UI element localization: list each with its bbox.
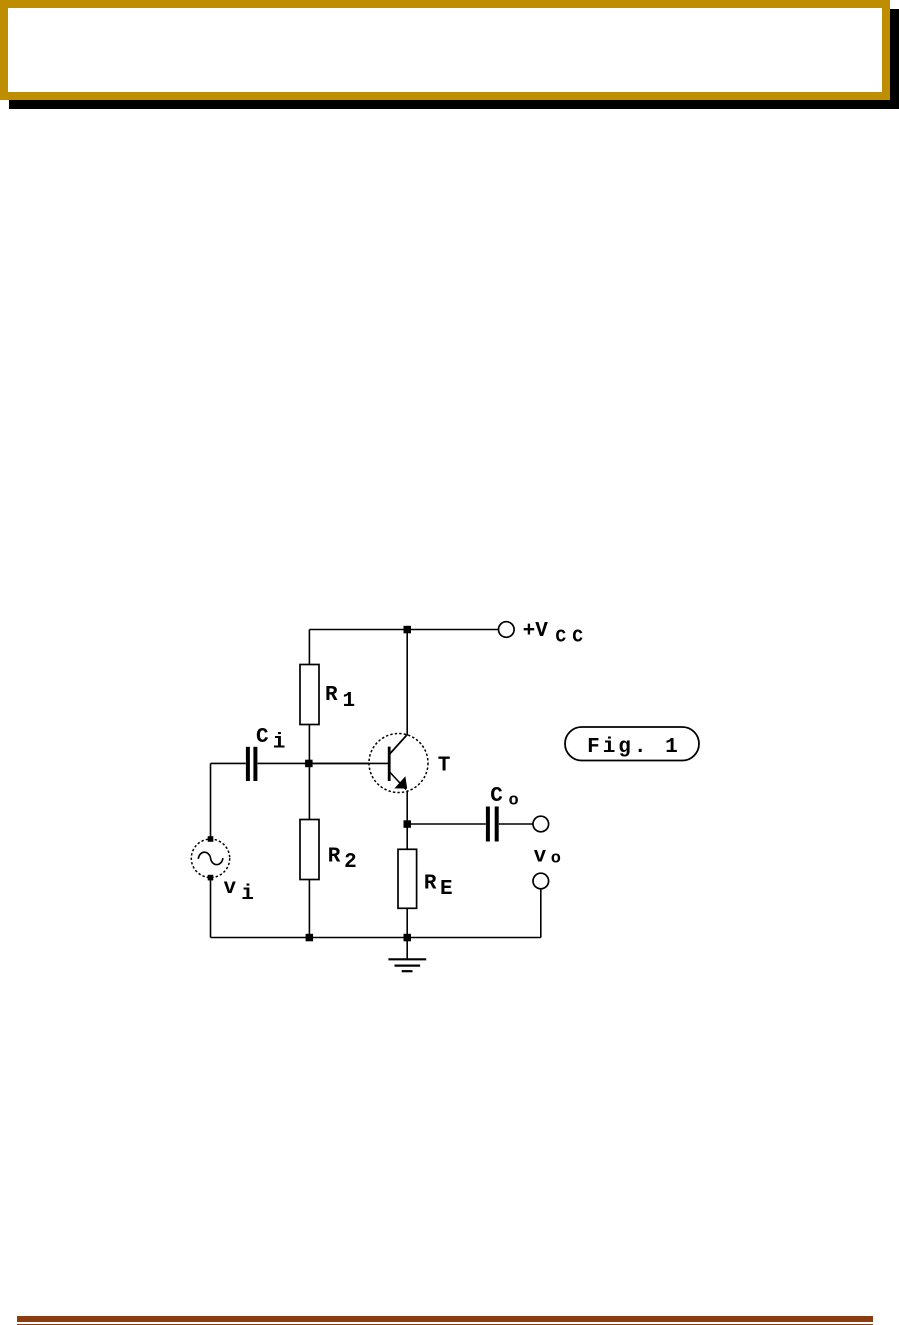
svg-text:R: R [328,846,341,869]
svg-text:R: R [325,684,338,707]
svg-text:T: T [438,755,451,778]
svg-text:i: i [273,731,286,754]
svg-text:v: v [534,845,547,868]
svg-text:i: i [241,883,254,906]
svg-text:1: 1 [343,690,356,713]
svg-text:v: v [224,877,237,900]
svg-text:C: C [256,726,269,749]
svg-text:2: 2 [344,851,357,874]
svg-text:CC: CC [555,627,589,647]
svg-text:E: E [440,878,453,901]
svg-text:C: C [490,785,503,808]
svg-text:o: o [509,791,519,810]
svg-text:o: o [551,850,561,869]
svg-text:R: R [424,873,437,896]
svg-text:+V: +V [523,620,549,643]
svg-text:Fig. 1: Fig. 1 [587,736,681,759]
